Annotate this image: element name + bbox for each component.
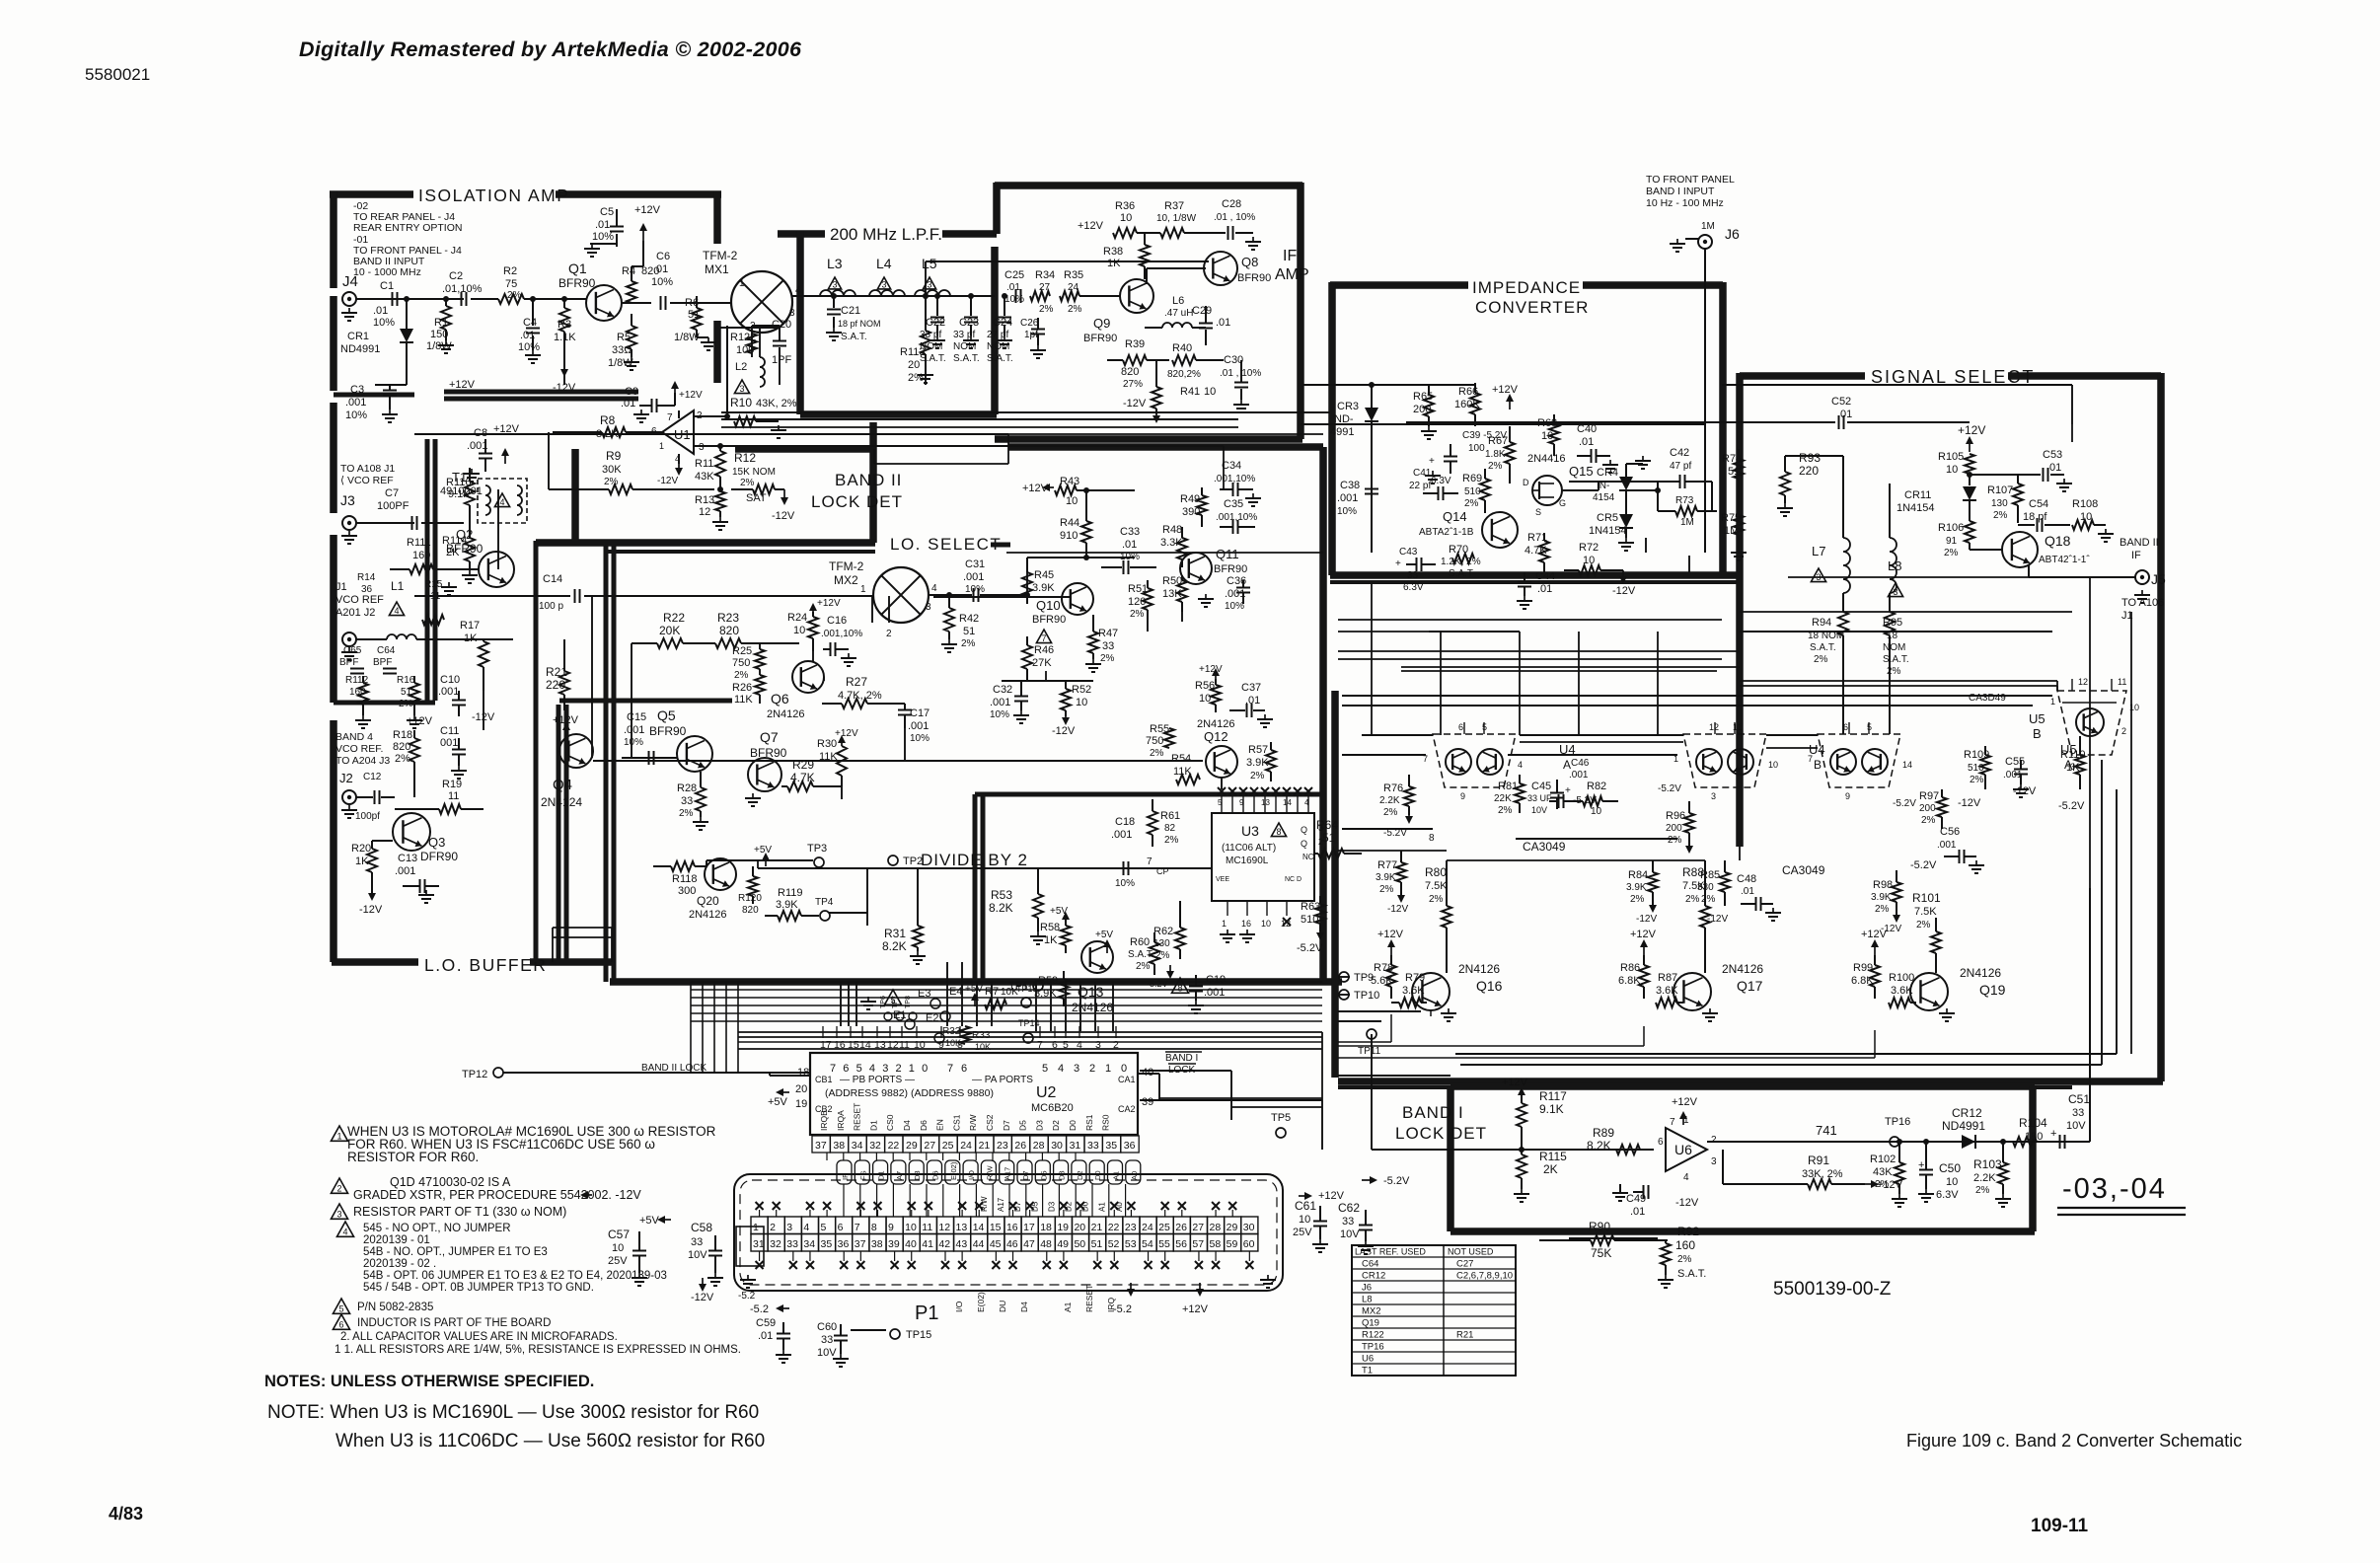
svg-text:11: 11 bbox=[2118, 677, 2126, 687]
svg-text:R72: R72 bbox=[1579, 542, 1599, 554]
svg-text:C38: C38 bbox=[1340, 480, 1360, 491]
svg-text:R82: R82 bbox=[1587, 781, 1606, 792]
svg-text:43K: 43K bbox=[1873, 1166, 1893, 1178]
svg-text:10K: 10K bbox=[975, 1042, 991, 1052]
svg-text:+12V: +12V bbox=[1861, 929, 1888, 940]
svg-text:R18: R18 bbox=[393, 729, 412, 741]
svg-text:.01: .01 bbox=[1630, 1206, 1645, 1218]
svg-text:C23: C23 bbox=[959, 317, 979, 329]
svg-text:55: 55 bbox=[1158, 1238, 1170, 1250]
svg-text:91: 91 bbox=[1946, 536, 1958, 547]
svg-text:R108: R108 bbox=[2072, 498, 2098, 510]
svg-text:8: 8 bbox=[871, 1222, 877, 1233]
svg-text:35: 35 bbox=[1105, 1140, 1117, 1152]
svg-text:L8: L8 bbox=[1362, 1295, 1373, 1305]
svg-text:R104: R104 bbox=[2019, 1116, 2047, 1130]
svg-text:D2: D2 bbox=[1076, 1170, 1084, 1180]
svg-text:R21: R21 bbox=[1456, 1330, 1473, 1341]
svg-text:NOT USED: NOT USED bbox=[1448, 1247, 1494, 1257]
svg-text:D6: D6 bbox=[931, 1170, 940, 1180]
svg-text:2%: 2% bbox=[1164, 835, 1179, 846]
svg-text:29: 29 bbox=[1227, 1222, 1238, 1233]
svg-text:49: 49 bbox=[1057, 1238, 1069, 1250]
svg-text:TP12: TP12 bbox=[462, 1069, 487, 1080]
svg-text:37: 37 bbox=[815, 1140, 827, 1152]
svg-text:Q18: Q18 bbox=[2045, 533, 2071, 549]
svg-text:L6: L6 bbox=[1172, 295, 1184, 307]
svg-text:R97: R97 bbox=[1919, 790, 1939, 802]
svg-text:D0: D0 bbox=[1093, 1170, 1102, 1180]
svg-text:4: 4 bbox=[795, 285, 801, 296]
svg-text:CR12: CR12 bbox=[1362, 1271, 1385, 1282]
svg-text:C43: C43 bbox=[1399, 547, 1418, 558]
svg-text:10 Hz - 100 MHz: 10 Hz - 100 MHz bbox=[1646, 197, 1724, 209]
svg-text:100PF: 100PF bbox=[377, 500, 409, 512]
svg-text:3.6K: 3.6K bbox=[1402, 985, 1425, 997]
svg-text:+12V: +12V bbox=[1502, 1077, 1528, 1088]
svg-text:3.9K: 3.9K bbox=[1032, 582, 1055, 594]
svg-text:TFM-2: TFM-2 bbox=[703, 249, 738, 262]
svg-text:10 - 1000 MHz: 10 - 1000 MHz bbox=[353, 266, 421, 278]
svg-text:6.3V: 6.3V bbox=[1936, 1189, 1959, 1201]
svg-text:R119: R119 bbox=[778, 887, 802, 899]
svg-text:R101: R101 bbox=[1912, 891, 1941, 905]
svg-text:R42: R42 bbox=[959, 613, 979, 625]
svg-text:1PF: 1PF bbox=[772, 354, 791, 366]
svg-text:A17: A17 bbox=[997, 1197, 1005, 1212]
svg-text:ABT42ˆ1-1ˆ: ABT42ˆ1-1ˆ bbox=[2039, 554, 2090, 565]
svg-text:A0: A0 bbox=[1115, 1202, 1124, 1212]
svg-text:1M: 1M bbox=[1680, 517, 1694, 528]
svg-text:2%: 2% bbox=[1136, 961, 1151, 972]
svg-text:R98: R98 bbox=[1873, 879, 1893, 891]
svg-text:-5.2V: -5.2V bbox=[1893, 798, 1916, 809]
svg-text:C25: C25 bbox=[1004, 269, 1024, 281]
svg-text:TFM-2: TFM-2 bbox=[829, 559, 864, 573]
svg-text:R52: R52 bbox=[1072, 684, 1091, 696]
svg-text:R48: R48 bbox=[1162, 524, 1182, 536]
svg-text:10%: 10% bbox=[373, 317, 395, 329]
svg-text:+5V: +5V bbox=[639, 1215, 660, 1227]
svg-text:C44: C44 bbox=[1535, 570, 1555, 582]
svg-text:R46: R46 bbox=[1034, 644, 1054, 656]
svg-text:.001: .001 bbox=[908, 720, 929, 732]
svg-text:J1: J1 bbox=[335, 581, 347, 593]
svg-text:2%: 2% bbox=[1464, 498, 1479, 509]
svg-text:R23: R23 bbox=[717, 611, 739, 625]
svg-text:3: 3 bbox=[786, 1222, 792, 1233]
svg-text:10: 10 bbox=[1076, 697, 1087, 708]
svg-text:C59: C59 bbox=[756, 1317, 776, 1329]
svg-text:D4: D4 bbox=[1019, 1302, 1029, 1312]
svg-text:R92: R92 bbox=[1677, 1225, 1699, 1238]
svg-text:52: 52 bbox=[1108, 1238, 1120, 1250]
svg-text:38: 38 bbox=[833, 1140, 845, 1152]
svg-text:L7: L7 bbox=[1812, 544, 1825, 558]
svg-text:CONVERTER: CONVERTER bbox=[1475, 298, 1589, 317]
svg-text:C48: C48 bbox=[1737, 873, 1756, 885]
svg-text:R10: R10 bbox=[730, 396, 752, 409]
svg-text:10%: 10% bbox=[624, 737, 643, 748]
svg-text:CB1: CB1 bbox=[815, 1075, 833, 1084]
svg-text:20: 20 bbox=[795, 1083, 807, 1095]
svg-text:D0: D0 bbox=[1068, 1120, 1078, 1131]
svg-text:Q2: Q2 bbox=[456, 527, 473, 542]
svg-text:R37: R37 bbox=[1164, 200, 1184, 212]
svg-text:R88: R88 bbox=[1682, 865, 1704, 879]
svg-text:R81: R81 bbox=[1498, 781, 1518, 792]
svg-text:BFR90: BFR90 bbox=[1237, 272, 1271, 284]
svg-text:2%: 2% bbox=[1488, 461, 1503, 472]
svg-text:4910001: 4910001 bbox=[440, 485, 483, 497]
svg-text:31: 31 bbox=[753, 1238, 765, 1250]
svg-text:C27: C27 bbox=[1456, 1259, 1473, 1270]
svg-text:RS1: RS1 bbox=[1084, 1114, 1094, 1131]
svg-text:25V: 25V bbox=[1293, 1227, 1312, 1238]
svg-text:Q1D 4710030-02 IS A: Q1D 4710030-02 IS A bbox=[390, 1175, 511, 1189]
svg-text:1: 1 bbox=[1105, 1063, 1111, 1075]
svg-text:C28: C28 bbox=[1222, 198, 1241, 210]
svg-text:FS: FS bbox=[858, 1170, 867, 1180]
svg-text:39: 39 bbox=[1142, 1096, 1153, 1108]
svg-text:D5: D5 bbox=[1030, 1201, 1039, 1212]
svg-text:27K: 27K bbox=[1032, 657, 1052, 669]
svg-text:D7: D7 bbox=[1002, 1120, 1011, 1131]
svg-text:3: 3 bbox=[739, 384, 744, 394]
svg-text:Q20: Q20 bbox=[697, 894, 719, 908]
svg-text:160: 160 bbox=[412, 550, 430, 561]
svg-text:MX1: MX1 bbox=[705, 262, 729, 276]
svg-text:R73: R73 bbox=[1675, 495, 1694, 506]
svg-text:130: 130 bbox=[1991, 498, 2008, 509]
svg-text:Q6: Q6 bbox=[771, 691, 789, 707]
svg-text:3: 3 bbox=[789, 308, 795, 319]
svg-text:.001: .001 bbox=[963, 571, 984, 583]
svg-text:C9: C9 bbox=[625, 386, 638, 398]
svg-text:820: 820 bbox=[742, 905, 759, 916]
svg-text:R16: R16 bbox=[397, 675, 415, 686]
svg-text:2%: 2% bbox=[1875, 1179, 1890, 1190]
svg-text:MC6B20: MC6B20 bbox=[1031, 1102, 1074, 1114]
svg-text:1K: 1K bbox=[464, 633, 478, 644]
svg-text:MX2: MX2 bbox=[834, 573, 858, 587]
svg-text:36: 36 bbox=[838, 1238, 850, 1250]
svg-text:0: 0 bbox=[1121, 1063, 1127, 1075]
svg-text:J5: J5 bbox=[2151, 571, 2166, 587]
svg-text:4: 4 bbox=[803, 1222, 809, 1233]
svg-text:ABTA2ˆ1-1B: ABTA2ˆ1-1B bbox=[1419, 526, 1474, 538]
svg-text:R45: R45 bbox=[1034, 569, 1054, 581]
svg-text:J2: J2 bbox=[339, 771, 353, 785]
svg-text:10V: 10V bbox=[688, 1249, 707, 1261]
svg-text:C57: C57 bbox=[608, 1228, 630, 1241]
svg-text:R57: R57 bbox=[1248, 744, 1268, 756]
svg-text:ND4991: ND4991 bbox=[1942, 1119, 1985, 1133]
svg-text:+12V: +12V bbox=[1958, 423, 1985, 437]
svg-text:47 pf: 47 pf bbox=[1670, 461, 1691, 472]
svg-text:T1: T1 bbox=[1362, 1366, 1373, 1377]
svg-text:10: 10 bbox=[905, 1222, 917, 1233]
svg-text:1: 1 bbox=[753, 1222, 759, 1233]
svg-text:+12V: +12V bbox=[1182, 1303, 1209, 1315]
svg-text:.01: .01 bbox=[1122, 539, 1137, 551]
svg-text:MC1690L: MC1690L bbox=[1226, 856, 1269, 866]
svg-text:R94: R94 bbox=[1812, 617, 1831, 629]
svg-text:Q1: Q1 bbox=[568, 260, 587, 276]
svg-text:30: 30 bbox=[1243, 1222, 1255, 1233]
svg-text:-12V: -12V bbox=[1612, 585, 1636, 597]
svg-text:7.5K: 7.5K bbox=[1914, 906, 1937, 918]
svg-text:U6: U6 bbox=[1674, 1142, 1692, 1157]
svg-text:A: A bbox=[2064, 758, 2072, 772]
svg-text:32: 32 bbox=[869, 1140, 881, 1152]
svg-text:D4: D4 bbox=[902, 1120, 912, 1131]
svg-text:3.9K: 3.9K bbox=[1871, 892, 1892, 903]
svg-text:NOM: NOM bbox=[920, 341, 942, 352]
svg-text:2: 2 bbox=[2121, 726, 2126, 736]
svg-text:NOTES: UNLESS OTHERWISE SPECIF: NOTES: UNLESS OTHERWISE SPECIFIED. bbox=[264, 1373, 594, 1390]
svg-text:33K, 2%: 33K, 2% bbox=[1802, 1168, 1843, 1180]
svg-text:19: 19 bbox=[795, 1098, 807, 1110]
svg-text:Figure 109 c. Band 2 Converte: Figure 109 c. Band 2 Converter Schematic bbox=[1906, 1431, 2242, 1451]
svg-text:C2: C2 bbox=[449, 270, 463, 282]
svg-text:23: 23 bbox=[997, 1140, 1008, 1152]
svg-text:12: 12 bbox=[2078, 677, 2088, 687]
svg-text:48: 48 bbox=[1040, 1238, 1052, 1250]
svg-text:40: 40 bbox=[1142, 1067, 1153, 1079]
svg-text:10%: 10% bbox=[965, 584, 985, 595]
svg-text:A1: A1 bbox=[1098, 1202, 1107, 1212]
svg-text:R47: R47 bbox=[1098, 628, 1118, 639]
svg-text:7: 7 bbox=[1147, 856, 1153, 867]
svg-text:Q: Q bbox=[1301, 825, 1307, 835]
svg-text:10: 10 bbox=[793, 625, 805, 636]
svg-text:26: 26 bbox=[1175, 1222, 1187, 1233]
svg-text:5500139-00-Z: 5500139-00-Z bbox=[1773, 1279, 1892, 1300]
svg-text:57: 57 bbox=[1192, 1238, 1204, 1250]
svg-text:BFR90: BFR90 bbox=[446, 542, 483, 556]
svg-text:D3: D3 bbox=[1034, 1120, 1044, 1131]
svg-text:58: 58 bbox=[1210, 1238, 1222, 1250]
svg-text:R1: R1 bbox=[434, 317, 448, 329]
svg-text:109-11: 109-11 bbox=[2031, 1516, 2089, 1536]
svg-text:Q16: Q16 bbox=[1476, 978, 1503, 994]
svg-text:A0: A0 bbox=[1130, 1171, 1139, 1180]
svg-text:R86: R86 bbox=[1620, 962, 1640, 974]
svg-text:R102: R102 bbox=[1870, 1154, 1896, 1165]
svg-text:R30: R30 bbox=[817, 738, 837, 750]
svg-text:IF: IF bbox=[2131, 550, 2141, 561]
svg-text:R25: R25 bbox=[732, 645, 752, 657]
svg-text:D1: D1 bbox=[877, 1170, 886, 1180]
svg-text:2%: 2% bbox=[1130, 609, 1145, 620]
svg-text:33: 33 bbox=[2072, 1107, 2084, 1119]
svg-text:2: 2 bbox=[770, 1222, 776, 1233]
svg-text:DIVIDE BY 2: DIVIDE BY 2 bbox=[921, 851, 1028, 869]
svg-text:P1: P1 bbox=[915, 1302, 938, 1324]
svg-text:L1: L1 bbox=[391, 579, 405, 593]
svg-text:46: 46 bbox=[1006, 1238, 1018, 1250]
svg-text:U5: U5 bbox=[2029, 711, 2045, 726]
svg-text:R62: R62 bbox=[1153, 926, 1173, 937]
svg-text:.01: .01 bbox=[1216, 317, 1230, 329]
svg-text:2%: 2% bbox=[1975, 1185, 1990, 1196]
svg-text:P/N 5082-2835: P/N 5082-2835 bbox=[357, 1302, 433, 1313]
svg-text:BAND I: BAND I bbox=[1165, 1053, 1198, 1064]
svg-text:25: 25 bbox=[942, 1140, 954, 1152]
svg-text:1: 1 bbox=[336, 1132, 341, 1142]
svg-text:35: 35 bbox=[821, 1238, 833, 1250]
svg-text:Q3: Q3 bbox=[428, 835, 445, 850]
svg-text:TP10: TP10 bbox=[1354, 990, 1379, 1002]
svg-text:BAND II: BAND II bbox=[2120, 537, 2159, 549]
svg-text:C32: C32 bbox=[993, 684, 1012, 696]
svg-text:8.2K: 8.2K bbox=[882, 939, 907, 953]
svg-text:53: 53 bbox=[1125, 1238, 1137, 1250]
svg-text:4.7K, 2%: 4.7K, 2% bbox=[838, 690, 882, 702]
svg-text:IRQB: IRQB bbox=[819, 1110, 829, 1131]
svg-text:A201 J2: A201 J2 bbox=[335, 607, 375, 619]
svg-text:CA3049: CA3049 bbox=[1523, 840, 1566, 854]
svg-text:820: 820 bbox=[719, 624, 739, 637]
svg-text:-5.2: -5.2 bbox=[738, 1291, 756, 1302]
svg-text:C42: C42 bbox=[1670, 447, 1689, 459]
svg-text:2%: 2% bbox=[1039, 304, 1054, 315]
svg-text:18 pf: 18 pf bbox=[2023, 511, 2047, 523]
svg-text:R69: R69 bbox=[1462, 473, 1482, 484]
svg-text:2: 2 bbox=[336, 1184, 341, 1194]
svg-text:3.9K: 3.9K bbox=[1626, 882, 1647, 893]
svg-text:2: 2 bbox=[886, 629, 892, 639]
svg-text:R99: R99 bbox=[1853, 962, 1873, 974]
svg-text:C2,6,7,8,9,10: C2,6,7,8,9,10 bbox=[1456, 1271, 1513, 1282]
svg-text:2K: 2K bbox=[1543, 1162, 1558, 1176]
svg-text:C10: C10 bbox=[440, 674, 460, 686]
svg-text:+12V: +12V bbox=[1318, 1190, 1345, 1202]
svg-text:R19: R19 bbox=[442, 779, 462, 790]
svg-text:34: 34 bbox=[803, 1238, 815, 1250]
svg-text:6.3V: 6.3V bbox=[1431, 476, 1451, 486]
svg-text:R38: R38 bbox=[1103, 246, 1123, 258]
svg-text:36: 36 bbox=[1124, 1140, 1136, 1152]
svg-text:.01: .01 bbox=[758, 1330, 773, 1342]
svg-text:10%: 10% bbox=[345, 409, 367, 421]
svg-text:4: 4 bbox=[394, 606, 399, 616]
svg-text:45: 45 bbox=[990, 1238, 1002, 1250]
svg-text:22: 22 bbox=[888, 1140, 900, 1152]
svg-text:BFR90: BFR90 bbox=[558, 276, 596, 290]
svg-text:BPF: BPF bbox=[339, 657, 358, 668]
svg-text:3: 3 bbox=[927, 280, 931, 290]
svg-text:VCO REF.: VCO REF. bbox=[335, 743, 383, 755]
svg-text:-5.2V: -5.2V bbox=[1658, 783, 1681, 794]
svg-text:R63: R63 bbox=[1301, 901, 1320, 913]
svg-text:C64: C64 bbox=[1362, 1259, 1378, 1270]
svg-text:9: 9 bbox=[888, 1222, 894, 1233]
svg-text:U5: U5 bbox=[2060, 742, 2077, 757]
svg-text:75K: 75K bbox=[1591, 1246, 1611, 1260]
svg-text:3: 3 bbox=[1711, 1156, 1717, 1167]
svg-text:D2: D2 bbox=[1065, 1201, 1074, 1212]
svg-text:R22: R22 bbox=[663, 611, 685, 625]
svg-text:R31: R31 bbox=[884, 927, 906, 940]
svg-text:2N4126: 2N4126 bbox=[1722, 962, 1763, 976]
svg-text:BPF: BPF bbox=[373, 657, 392, 668]
svg-text:TP13: TP13 bbox=[1016, 984, 1038, 994]
svg-text:2%: 2% bbox=[1993, 510, 2008, 521]
svg-text:2N4126: 2N4126 bbox=[1960, 966, 2001, 980]
svg-text:2.2K: 2.2K bbox=[1973, 1172, 1996, 1184]
svg-text:C29: C29 bbox=[1192, 305, 1212, 317]
svg-text:Digitally Remastered by ArtekM: Digitally Remastered by ArtekMedia © 200… bbox=[299, 37, 802, 61]
svg-text:33: 33 bbox=[821, 1334, 833, 1346]
svg-text:36: 36 bbox=[361, 584, 373, 595]
svg-text:+12V: +12V bbox=[1199, 664, 1223, 675]
svg-text:C4: C4 bbox=[523, 317, 537, 329]
svg-text:.001: .001 bbox=[395, 865, 415, 877]
svg-text:82: 82 bbox=[1164, 823, 1176, 834]
svg-text:C41: C41 bbox=[1413, 468, 1432, 479]
svg-text:R84: R84 bbox=[1628, 869, 1648, 881]
svg-text:SAT: SAT bbox=[746, 492, 767, 504]
svg-text:-12V: -12V bbox=[1958, 797, 1981, 809]
svg-text:R26: R26 bbox=[732, 682, 752, 694]
svg-text:16: 16 bbox=[1241, 919, 1251, 929]
svg-text:5: 5 bbox=[1482, 722, 1487, 732]
svg-text:2%: 2% bbox=[1921, 815, 1936, 826]
svg-text:10%: 10% bbox=[592, 231, 614, 243]
svg-text:Q4: Q4 bbox=[553, 777, 572, 793]
svg-text:RESISTOR PART OF T1 (330 ω NOM: RESISTOR PART OF T1 (330 ω NOM) bbox=[353, 1205, 566, 1219]
svg-text:R90: R90 bbox=[1589, 1220, 1610, 1233]
svg-text:.01: .01 bbox=[595, 219, 610, 231]
svg-text:R12: R12 bbox=[734, 451, 756, 465]
svg-text:R41: R41 bbox=[1180, 386, 1200, 398]
svg-text:— PB PORTS —: — PB PORTS — bbox=[840, 1075, 915, 1085]
svg-text:+12V: +12V bbox=[1672, 1096, 1698, 1108]
svg-text:3: 3 bbox=[1711, 791, 1716, 801]
svg-text:1/8W: 1/8W bbox=[426, 340, 452, 352]
svg-text:2020139 - 01: 2020139 - 01 bbox=[363, 1234, 430, 1246]
svg-text:2%: 2% bbox=[1970, 775, 1984, 785]
svg-text:Q9: Q9 bbox=[1093, 316, 1110, 331]
svg-text:TO A204 J3: TO A204 J3 bbox=[335, 755, 390, 767]
svg-text:3.9K: 3.9K bbox=[1376, 872, 1396, 883]
svg-text:R87: R87 bbox=[1658, 972, 1677, 984]
svg-text:R100: R100 bbox=[1889, 972, 1914, 984]
svg-text:L5: L5 bbox=[922, 256, 937, 271]
svg-text:C14: C14 bbox=[543, 573, 562, 585]
svg-text:NOTE: When U3 is MC1690L — U: NOTE: When U3 is MC1690L — Use 300Ω resi… bbox=[267, 1402, 759, 1423]
svg-text:10V: 10V bbox=[1340, 1228, 1360, 1240]
svg-text:SIGNAL SELECT: SIGNAL SELECT bbox=[1871, 367, 2035, 387]
svg-text:18 pf NOM: 18 pf NOM bbox=[838, 319, 881, 329]
svg-text:9: 9 bbox=[1239, 798, 1244, 807]
svg-text:10: 10 bbox=[1946, 464, 1958, 476]
svg-text:+12V: +12V bbox=[407, 715, 433, 727]
svg-text:39: 39 bbox=[888, 1238, 900, 1250]
svg-text:.01: .01 bbox=[1537, 583, 1552, 595]
svg-text:2: 2 bbox=[896, 1063, 902, 1075]
svg-text:100: 100 bbox=[1468, 443, 1485, 454]
svg-text:CS1: CS1 bbox=[951, 1114, 961, 1131]
svg-text:.01: .01 bbox=[1741, 886, 1754, 897]
svg-text:820,2%: 820,2% bbox=[1167, 369, 1201, 380]
svg-text:50: 50 bbox=[1074, 1238, 1085, 1250]
svg-text:20K: 20K bbox=[659, 624, 680, 637]
svg-text:6: 6 bbox=[961, 1063, 967, 1075]
svg-text:54B - NO. OPT., JUMPER E1 TO E: 54B - NO. OPT., JUMPER E1 TO E3 bbox=[363, 1246, 548, 1258]
